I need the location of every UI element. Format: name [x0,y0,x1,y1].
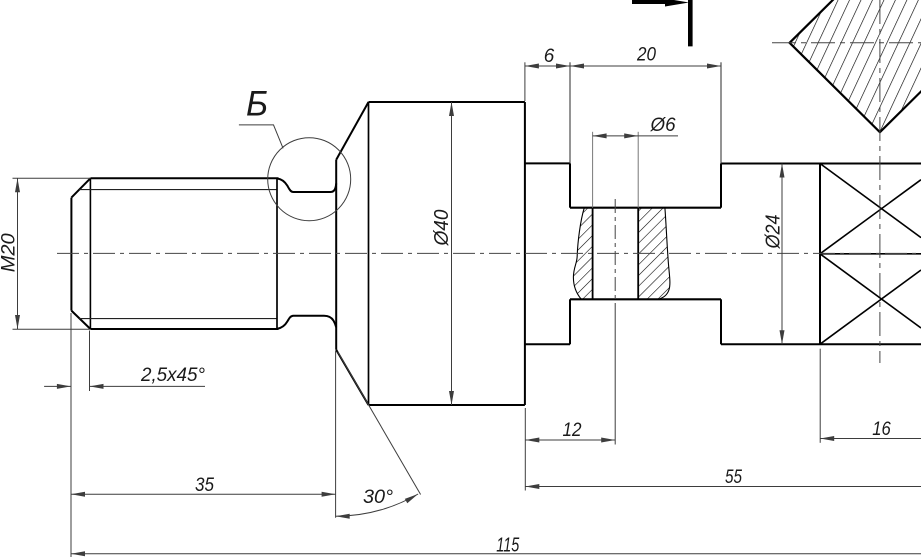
hole centerline extension to dim 12 [614,303,616,445]
broken-out section upper boundary [570,207,721,209]
svg-text:55: 55 [725,467,742,488]
dim 55 line [525,486,921,488]
left end face of threaded shank [70,198,72,311]
D24 top edge with square shank top [721,163,921,165]
square flat diagonal lower 2 [820,270,921,344]
dim D40 arrow up [449,102,454,116]
dim D6 arrow right [624,133,638,138]
hole vertical centerline [614,199,616,303]
dim M20 extension line top [13,177,91,179]
svg-text:12: 12 [563,420,582,441]
dim 16 extension [819,349,821,443]
rotated section square outline [790,0,921,132]
dim 20 arrow left [570,64,584,69]
dim 35 line [71,493,336,495]
thread major diameter top edge [90,177,278,179]
svg-text:115: 115 [496,535,520,557]
dim D40 arrow down [449,391,454,405]
shoulder face at cone small end [335,160,337,350]
cylinder D40 right face [524,102,526,405]
dim 2.5x45 line left stub [44,385,71,387]
dim 35 arrow right [322,492,336,497]
dim 12 extension left [524,408,526,491]
dim 6 extension right [569,62,571,163]
thread runout end line [276,178,278,329]
dim D24 arrow down [780,330,785,344]
dim D40 line [451,102,453,405]
dim 20 line [570,65,721,67]
cone base junction line [368,102,370,405]
collar left face lower part [569,299,571,344]
dim D24 arrow up [780,164,785,178]
neck top edge between D40 and collar [525,162,570,164]
main horizontal centerline [57,252,921,254]
cone 30 deg upper edge [336,102,368,160]
dim 12 arrow left [525,438,539,443]
svg-text:35: 35 [195,475,214,496]
hole D6 left edge [592,208,594,300]
thread major diameter bottom edge [90,328,278,330]
thread relief groove top profile [277,179,336,193]
dim 6 arrow right [556,64,570,69]
dim D6 line [593,135,639,137]
dim 30deg arc [336,494,418,516]
dim M20 arrow up [15,178,20,192]
cone edge extension line [338,352,421,495]
dim 16 arrow left [820,436,834,441]
svg-text:Б: Б [246,85,268,124]
dim 6 line [525,65,570,67]
dim 6 arrow left [525,64,539,69]
dim 2.5x45 arrow right [57,384,71,389]
dim 115 arrow left [71,551,85,556]
detail circle B [268,138,351,221]
dim 30deg arrow lower [336,514,350,519]
dim M20 extension line bottom [13,328,90,330]
svg-text:Ø40: Ø40 [431,210,453,247]
D24 bottom edge with square shank bottom [721,343,921,345]
thread minor diameter top line (thin) [79,189,277,191]
svg-text:16: 16 [872,419,891,440]
collar right face upper part [720,164,722,208]
dim 16 line [820,438,921,440]
cutting plane arrowhead [665,0,689,7]
collar right face lower part [720,299,722,344]
broken-out section lower boundary [570,298,721,300]
dim D24 line [781,164,783,345]
thread relief groove bottom profile [277,316,336,329]
section view vertical centerline [879,0,881,363]
hole D6 right edge [637,208,639,300]
svg-text:Ø6: Ø6 [650,115,676,136]
dim D6 extension right [637,132,639,208]
dim 20 arrow right [707,64,721,69]
thread minor diameter bottom line (thin) [79,318,277,320]
top chamfer edge 2.5x45 [71,178,90,197]
dim 2.5x45 extension line [89,331,91,392]
svg-text:M20: M20 [0,233,19,272]
hatching left of hole [573,208,592,300]
dim 55 arrow left [525,484,539,489]
section view horizontal centerline [772,42,921,44]
chamfer base line across thread [89,178,91,329]
detail leader line [239,125,283,148]
neck bottom edge between D40 and collar [525,343,570,345]
collar left face upper part [569,163,571,207]
cylinder D40 top edge [369,101,525,103]
break line right (freehand) [658,208,670,300]
dim M20 arrow down [15,315,20,329]
svg-text:20: 20 [636,45,656,66]
dim 2.5x45 shelf [90,385,206,387]
dim 30deg arrow upper [405,494,418,503]
square shank left face [819,164,821,345]
svg-text:30°: 30° [363,487,393,508]
dim M20 line [17,178,19,329]
dim 115 line [71,553,921,555]
dim 2.5x45 arrow left [90,384,104,389]
break line left (freehand) [573,208,584,300]
dim 12 arrow right [601,438,615,443]
cylinder D40 bottom edge [369,404,525,406]
dim 6 extension left [524,62,526,101]
dim 20 extension right [720,62,722,163]
square flat diagonal upper 2 [820,180,921,254]
svg-text:2,5x45°: 2,5x45° [140,365,205,386]
cone 30 deg lower edge [336,350,368,405]
square flat diagonal lower 1 [820,254,921,328]
bottom chamfer edge 2.5x45 [71,311,90,329]
dim D6 arrow left [593,133,607,138]
svg-text:6: 6 [544,46,555,67]
square shank mid edge [820,253,921,255]
dim 35 extension right [335,351,337,518]
dim D6 shelf [638,135,678,137]
dim 35 extension left [70,313,72,557]
square flat diagonal upper 1 [820,164,921,238]
hatching right of hole [638,208,670,300]
dim 35 arrow left [71,492,85,497]
dim D6 extension left [592,132,594,208]
dim 12 line [525,439,615,441]
cutting plane end bar [688,0,693,46]
cutting plane thick trace [632,0,668,4]
svg-text:Ø24: Ø24 [763,215,785,250]
